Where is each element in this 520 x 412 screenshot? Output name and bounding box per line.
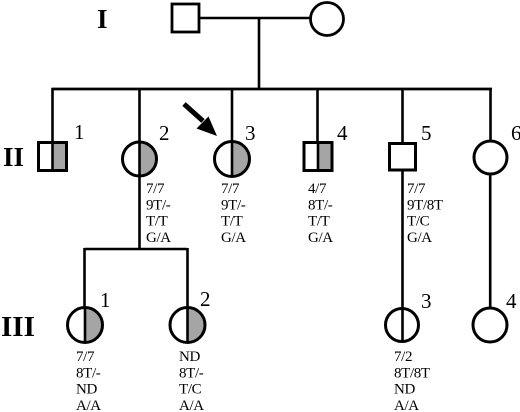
drop line to III-1 [83, 248, 86, 308]
svg-text:9T/-: 9T/- [146, 197, 171, 213]
svg-text:T/C: T/C [407, 214, 430, 230]
svg-text:A/A: A/A [179, 398, 204, 412]
sibship line generation III [85, 248, 188, 251]
svg-text:G/A: G/A [407, 230, 432, 246]
genotype text III-3 [394, 349, 430, 412]
individual II-1 half-shaded square [39, 143, 67, 171]
svg-text:A/A: A/A [394, 398, 419, 412]
svg-text:7/7: 7/7 [407, 181, 426, 197]
svg-text:4/7: 4/7 [308, 181, 327, 197]
svg-text:I: I [97, 4, 108, 34]
svg-text:T/C: T/C [179, 382, 202, 398]
svg-text:1: 1 [100, 288, 111, 312]
generation label II [3, 142, 24, 172]
line from II-5 down through III-3 [401, 171, 404, 341]
genotype text II-5 [407, 181, 443, 246]
svg-text:5: 5 [421, 121, 432, 145]
number label II-1 [74, 120, 85, 144]
number label II-6 [511, 121, 520, 145]
individual II-6 open circle [474, 141, 507, 174]
drop line from couple I to sibship II [258, 17, 261, 89]
svg-text:9T/8T: 9T/8T [407, 197, 443, 213]
genotype text III-2 [179, 349, 204, 412]
svg-text:ND: ND [76, 382, 97, 398]
number label II-5 [421, 121, 432, 145]
individual I-1 square (father) [172, 4, 199, 32]
svg-text:8T/-: 8T/- [308, 197, 333, 213]
svg-text:6: 6 [511, 121, 520, 145]
svg-text:3: 3 [245, 121, 256, 145]
number label III-4 [506, 289, 517, 313]
number label III-3 [421, 289, 432, 313]
svg-text:8T/-: 8T/- [76, 365, 101, 381]
svg-text:8T/-: 8T/- [179, 365, 204, 381]
svg-text:ND: ND [179, 349, 200, 365]
individual I-2 circle (mother) [311, 3, 344, 36]
svg-text:2: 2 [159, 121, 170, 145]
svg-text:T/T: T/T [308, 214, 330, 230]
genotype text II-2 [146, 181, 171, 246]
individual II-4 half-shaded square [304, 143, 332, 171]
individual III-2 half-shaded circle [170, 308, 205, 343]
svg-text:T/T: T/T [146, 214, 168, 230]
individual II-5 open square [390, 144, 416, 171]
svg-text:2: 2 [200, 287, 211, 311]
svg-text:G/A: G/A [146, 230, 171, 246]
individual II-3 half-shaded circle (proband) [215, 142, 250, 177]
marriage line I-1 to I-2 [198, 17, 312, 20]
svg-text:3: 3 [421, 289, 432, 313]
drop line to II-5 [401, 88, 404, 142]
svg-text:4: 4 [506, 289, 517, 313]
svg-text:7/7: 7/7 [221, 181, 240, 197]
drop line to II-3 with divider through circle [231, 88, 234, 176]
generation label I [97, 4, 108, 34]
sibship line generation II [52, 88, 493, 91]
individual II-2 half-shaded circle [123, 142, 157, 176]
drop line to II-4 with divider through square [316, 88, 319, 171]
number label III-1 [100, 288, 111, 312]
svg-text:7/2: 7/2 [394, 349, 412, 365]
svg-text:A/A: A/A [76, 398, 101, 412]
generation label III [1, 311, 35, 343]
number label II-2 [159, 121, 170, 145]
svg-text:G/A: G/A [308, 230, 333, 246]
drop line to II-6 [489, 88, 492, 141]
svg-text:1: 1 [74, 120, 85, 144]
individual III-1 half-shaded circle [68, 308, 103, 343]
genotype text II-3 [221, 181, 246, 246]
genotype text III-1 [76, 349, 101, 412]
svg-text:8T/8T: 8T/8T [394, 365, 430, 381]
svg-text:III: III [1, 311, 35, 343]
svg-text:7/7: 7/7 [146, 181, 165, 197]
individual III-3 open circle [386, 309, 419, 342]
genotype text II-4 [308, 181, 333, 246]
number label II-4 [337, 121, 348, 145]
drop line to II-1 [51, 88, 54, 171]
svg-text:9T/-: 9T/- [221, 197, 246, 213]
number label III-2 [200, 287, 211, 311]
svg-text:ND: ND [394, 382, 415, 398]
svg-text:4: 4 [337, 121, 348, 145]
individual III-4 open circle [473, 308, 507, 342]
drop line to III-2 [186, 248, 189, 310]
svg-text:II: II [3, 142, 24, 172]
line from II-6 down to III-4 [489, 175, 492, 308]
svg-text:G/A: G/A [221, 230, 246, 246]
number label II-3 [245, 121, 256, 145]
proband arrow pointing to II-3 [184, 104, 217, 136]
drop line to II-2 and down through II-2 to sibship III [138, 88, 141, 250]
svg-text:T/T: T/T [221, 214, 243, 230]
svg-text:7/7: 7/7 [76, 349, 95, 365]
